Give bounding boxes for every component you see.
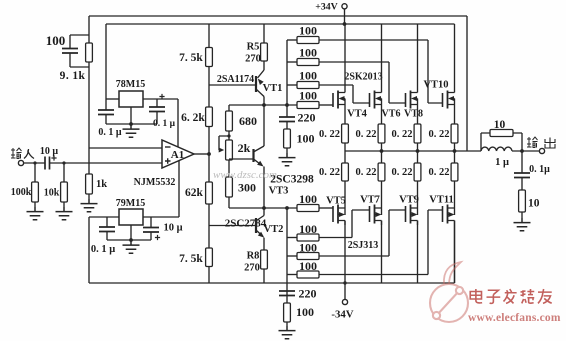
svg-text:0. 22: 0. 22	[429, 167, 450, 178]
svg-text:1k: 1k	[96, 179, 107, 190]
svg-text:100: 100	[299, 259, 317, 273]
wire: bus to 0.22 (lower col 4)	[454, 151, 456, 163]
node: pot wiper tie	[227, 134, 230, 137]
pin: inverting	[165, 146, 171, 148]
resistor 100k	[34, 163, 36, 182]
wire: gate VT4	[319, 104, 333, 106]
svg-text:VT3: VT3	[269, 186, 289, 197]
svg-text:0. 1 μ: 0. 1 μ	[91, 244, 115, 255]
node: VT1 collector junction	[262, 103, 266, 107]
resistor 0.22 (lower col 4)	[451, 163, 458, 181]
wire: gate VT10	[319, 40, 443, 103]
svg-text:10 μ: 10 μ	[40, 146, 59, 157]
transistor VT7 (2SJ313)	[369, 206, 371, 222]
svg-text:VT11: VT11	[429, 195, 454, 206]
wire: zobel gnd	[521, 212, 523, 218]
wire: +34V rail left drop to 78M15 input	[105, 24, 107, 99]
ground (upper zobel)	[279, 153, 296, 166]
node: -34V supply terminal	[344, 283, 346, 299]
wire: 0.22 to source (lower col 1)	[344, 181, 346, 208]
wire: upper row 3 lead	[287, 84, 297, 86]
node: upper zobel junction	[285, 103, 289, 107]
svg-text:VT7: VT7	[360, 195, 380, 206]
svg-text:0. 22: 0. 22	[429, 129, 450, 140]
wire: 0.22 to bus (upper col 2)	[381, 143, 383, 151]
wire: 0.22 to source (lower col 2)	[381, 181, 383, 208]
svg-text:+34V: +34V	[315, 2, 337, 13]
regulator 79M15	[119, 209, 143, 225]
ground (10k)	[56, 207, 73, 220]
node: bus junction x=381.5	[380, 149, 384, 153]
node: 79M15 ground junction	[129, 238, 133, 242]
wire: bias chain column	[228, 105, 230, 208]
wire: source to 0.22 (upper col 4)	[454, 105, 456, 125]
svg-text:0. 22: 0. 22	[392, 129, 413, 140]
svg-text:100: 100	[299, 24, 317, 38]
svg-text:VT5: VT5	[326, 196, 346, 207]
potentiometer 2k	[226, 140, 233, 160]
resistor 0.22 (lower col 2)	[378, 163, 385, 181]
wire: drain VT5	[344, 221, 346, 284]
wire: 78M15 output lead	[143, 98, 178, 100]
svg-text:100: 100	[299, 241, 317, 255]
wire: 78M15 input lead	[106, 98, 119, 100]
wire: upper zobel gnd	[286, 148, 288, 153]
wire: output bus	[345, 150, 481, 152]
wire: -15V to op-amp	[178, 161, 180, 218]
wire: VT1 base	[209, 84, 256, 86]
node: +34V rail junction	[343, 22, 347, 26]
svg-text:680: 680	[239, 114, 257, 128]
svg-text:6. 2k: 6. 2k	[181, 112, 205, 124]
resistor 100 (upper gate row 4)	[297, 102, 319, 109]
wire: 0.22 to source (lower col 3)	[417, 181, 419, 208]
wire: drain VT8	[417, 24, 419, 88]
wire: drain VT10	[454, 24, 456, 88]
svg-text:300: 300	[238, 181, 256, 195]
wire: lower gate bus	[229, 207, 297, 209]
capacitor 100 (feedback)	[70, 35, 89, 67]
svg-text:2SJ313: 2SJ313	[348, 240, 379, 251]
svg-text:220: 220	[299, 287, 317, 301]
svg-text:2k: 2k	[238, 141, 251, 155]
transistor VT1 (2SA1174)	[255, 76, 257, 92]
node: VT3/VT2 junction	[262, 206, 266, 210]
label shuru (input) glyphs	[11, 148, 22, 159]
node: input terminal	[18, 160, 23, 165]
wire: lower zobel gnd	[286, 322, 288, 326]
transistor VT5 (2SJ313)	[332, 206, 334, 222]
svg-text:VT6: VT6	[382, 109, 401, 120]
node: bus junction x=454.5	[453, 149, 457, 153]
svg-text:7. 5k: 7. 5k	[179, 52, 203, 64]
resistor 100 (lower gate row 1)	[297, 205, 319, 212]
svg-text:0. 22: 0. 22	[356, 129, 377, 140]
wire: drain VT11	[454, 221, 456, 284]
svg-text:A1: A1	[171, 149, 184, 161]
svg-text:2SA1174: 2SA1174	[217, 74, 254, 85]
svg-text:270: 270	[244, 263, 260, 274]
transistor VT2 (2SC2784)	[255, 218, 257, 233]
svg-text:VT2: VT2	[264, 224, 284, 235]
wire: lower riser	[286, 208, 288, 291]
wire: gate VT6	[319, 85, 370, 103]
wire: 79M15 ground bus	[107, 239, 151, 241]
ground (lower zobel)	[279, 326, 296, 339]
node: output terminal	[539, 148, 544, 153]
svg-text:10: 10	[528, 198, 540, 210]
node: op-amp output junction	[207, 152, 211, 156]
svg-text:www.dzsc.com: www.dzsc.com	[213, 169, 277, 181]
resistor 100 (lower zobel)	[286, 296, 288, 304]
resistor 10 (zobel)	[519, 190, 526, 212]
watermark elecfans logo+text	[430, 262, 561, 324]
svg-text:7. 5k: 7. 5k	[179, 253, 203, 265]
wire: lower row 4 lead	[287, 274, 297, 276]
svg-text:9. 1k: 9. 1k	[60, 70, 86, 82]
resistor 100 (upper gate row 1)	[297, 37, 319, 44]
svg-text:0. 22: 0. 22	[319, 129, 340, 140]
svg-text:100: 100	[299, 222, 317, 236]
wire: 79M15 gnd lead	[130, 225, 132, 240]
wire: lower row 3 lead	[287, 255, 297, 257]
ground (1k)	[81, 199, 98, 212]
resistor 6.2k	[206, 107, 213, 127]
svg-text:100: 100	[299, 192, 317, 206]
wire: gate VT7	[319, 210, 370, 238]
svg-text:100: 100	[296, 305, 314, 319]
svg-text:www.elecfans.com: www.elecfans.com	[468, 312, 561, 324]
wire: 1k to ground	[88, 194, 90, 199]
svg-text:100: 100	[299, 69, 317, 83]
wire: +15V to op-amp	[177, 99, 179, 147]
resistor 0.22 (lower col 3)	[414, 163, 421, 181]
node: +34V supply terminal	[342, 4, 347, 9]
wire: 0.22 to bus (upper col 3)	[417, 143, 419, 151]
resistor 0.22 (upper col 4)	[451, 124, 458, 143]
wire: upper gate bus	[229, 104, 297, 106]
wire: gate VT11	[319, 210, 443, 275]
node: bus junction feedback	[465, 150, 467, 152]
capacitor 0.1u (78M15 input)	[105, 99, 107, 124]
wire: bus to 0.22 (lower col 3)	[417, 151, 419, 163]
wire: drain VT6	[381, 24, 383, 88]
wire: VT2 base	[209, 225, 256, 227]
transistor VT4 (2SK2013)	[332, 93, 334, 107]
node: 100k tap	[33, 161, 36, 164]
ground (79M15)	[123, 241, 140, 254]
wire: VT1 collector to gate bus	[263, 97, 265, 147]
resistor 100 (lower gate row 4)	[297, 271, 319, 278]
resistor 10k	[63, 163, 65, 182]
resistor 1k	[86, 174, 93, 194]
resistor 0.22 (lower col 1)	[342, 163, 349, 181]
wire: -34V rail	[89, 225, 455, 283]
wire: upper row 2 lead	[287, 61, 297, 63]
svg-text:220: 220	[298, 111, 316, 125]
wire: op-amp output	[194, 153, 209, 155]
transistor VT11 (2SJ313)	[442, 206, 444, 222]
wire: feedback column (left)	[88, 16, 90, 174]
transistor VT10 (2SK2013)	[442, 93, 444, 107]
resistor 7.5k (upper)	[206, 48, 213, 67]
resistor R5 270	[263, 24, 265, 70]
wire: source to 0.22 (upper col 1)	[344, 105, 346, 125]
wire: 0.22 to bus (upper col 1)	[344, 143, 346, 151]
capacitor 0.1u (79M15 input)	[106, 217, 108, 240]
regulator 78M15	[119, 91, 143, 107]
node: output junction	[520, 149, 524, 153]
resistor 680	[226, 111, 233, 131]
label input (shuru)	[0, 0, 1, 1]
svg-text:100k: 100k	[11, 187, 32, 198]
wire: gate VT9	[319, 210, 406, 256]
wire: upper riser	[286, 40, 288, 105]
wire: bus to 0.22 (lower col 1)	[344, 151, 346, 163]
node: 78M15 ground junction	[129, 122, 133, 126]
transistor VT6 (2SK2013)	[369, 93, 371, 107]
svg-text:VT8: VT8	[404, 109, 423, 120]
svg-text:0. 1 μ: 0. 1 μ	[98, 127, 122, 138]
node: 10k tap	[62, 161, 65, 164]
wire: feedback rail right drop to output bus	[466, 16, 468, 151]
resistor 7.5k (lower)	[206, 248, 213, 267]
svg-text:0. 1 μ: 0. 1 μ	[153, 119, 176, 129]
svg-text:0. 1μ: 0. 1μ	[529, 164, 550, 175]
wire: 78M15 ground bus	[106, 123, 157, 125]
wire: upper row 1 lead	[287, 39, 297, 41]
wire: gate VT8	[319, 62, 406, 103]
svg-text:62k: 62k	[185, 187, 204, 199]
resistor 100 (lower gate row 3)	[297, 253, 319, 260]
capacitor 10u (79M15 output)	[150, 217, 152, 240]
capacitor 0.1u (zobel)	[521, 151, 523, 190]
resistor 0.22 (upper col 2)	[378, 124, 385, 143]
svg-text:100: 100	[299, 46, 317, 60]
transistor VT8 (2SK2013)	[405, 93, 407, 107]
svg-text:100: 100	[297, 132, 315, 146]
svg-text:78M15: 78M15	[116, 79, 145, 90]
svg-text:10k: 10k	[44, 188, 60, 199]
wire: bias column	[208, 24, 210, 283]
svg-text:R5: R5	[247, 42, 260, 53]
capacitor 220 (upper)	[286, 105, 288, 129]
wire: coupling cap to non-inverting input	[50, 162, 163, 164]
inductor 1u	[481, 133, 522, 151]
resistor 0.22 (upper col 3)	[414, 124, 421, 143]
wire: 0.22 to bus (upper col 4)	[454, 143, 456, 151]
watermark dianzifashaoyou glyphs	[470, 289, 482, 303]
wire: input to coupling cap	[24, 162, 45, 164]
op-amp A1	[162, 140, 194, 168]
svg-text:100: 100	[46, 33, 66, 48]
wire: bus to 0.22 (lower col 2)	[381, 151, 383, 163]
svg-text:-34V: -34V	[331, 309, 353, 321]
wire: 79M15 output lead	[143, 216, 179, 218]
resistor 100 (upper gate row 2)	[297, 59, 319, 66]
wire: drain VT4	[344, 24, 346, 88]
wire: to output terminal	[522, 150, 539, 152]
wire: VT3 base	[229, 158, 254, 160]
svg-text:0. 22: 0. 22	[356, 167, 377, 178]
resistor 300	[226, 177, 233, 197]
wire: +34V rail	[106, 23, 455, 25]
wire: 78M15 gnd lead	[130, 107, 132, 124]
resistor 0.22 (upper col 1)	[342, 124, 349, 143]
node: feedback rail from output (top)	[89, 15, 467, 17]
ground (78M15)	[123, 125, 140, 138]
wire: gate VT5	[319, 207, 333, 209]
transistor VT3 (2SC3298)	[252, 149, 254, 162]
svg-text:NJM5532: NJM5532	[134, 177, 176, 188]
svg-text:2SK2013: 2SK2013	[344, 72, 382, 83]
svg-text:2SC2784: 2SC2784	[225, 218, 267, 230]
svg-text:VT10: VT10	[423, 80, 448, 91]
svg-text:VT9: VT9	[399, 195, 419, 206]
svg-text:0. 22: 0. 22	[392, 167, 413, 178]
resistor 62k	[206, 182, 213, 204]
capacitor 10u (input coupling)	[45, 157, 50, 170]
resistor R8 270	[263, 238, 265, 283]
wire: 100k to ground	[34, 202, 36, 207]
resistor 100 (upper zobel)	[284, 129, 291, 148]
svg-text:100: 100	[299, 89, 317, 103]
wire: drain VT7	[381, 221, 383, 284]
wire: source to 0.22 (upper col 2)	[381, 105, 383, 125]
wire: 79M15 input lead	[89, 217, 119, 283]
wire: lower row 2 lead	[287, 237, 297, 239]
wire: 10k to ground	[63, 202, 65, 207]
capacitor 0.1u (78M15 output)	[156, 99, 158, 124]
node: lower riser junction	[285, 206, 289, 210]
svg-text:270: 270	[245, 54, 261, 65]
svg-text:79M15: 79M15	[116, 198, 145, 209]
svg-text:R8: R8	[247, 251, 260, 262]
wire: inverting input	[89, 147, 162, 149]
svg-text:0. 22: 0. 22	[319, 167, 340, 178]
capacitor 220 (lower)	[286, 291, 288, 296]
resistor 10 (output damping)	[490, 130, 513, 137]
svg-text:10 μ: 10 μ	[163, 223, 182, 234]
resistor 100 (lower gate row 2)	[297, 234, 319, 241]
wire: 0.22 to source (lower col 4)	[454, 181, 456, 208]
node: -34V terminal junction	[343, 281, 346, 284]
svg-text:VT1: VT1	[263, 83, 283, 94]
svg-text:VT4: VT4	[347, 109, 368, 120]
transistor VT9 (2SJ313)	[405, 206, 407, 222]
resistor 9.1k	[86, 43, 93, 62]
wire: source to 0.22 (upper col 3)	[417, 105, 419, 125]
wire: VT3 emitter to lower bus / VT2 collector	[257, 167, 265, 221]
ground (output zobel)	[514, 218, 531, 231]
svg-text:1 μ: 1 μ	[495, 157, 509, 168]
svg-text:10: 10	[494, 119, 506, 131]
node: bus junction x=417.5	[416, 149, 420, 153]
ground (100k)	[27, 207, 44, 220]
resistor 100 (upper gate row 3)	[297, 82, 319, 89]
label output (shuchu)	[0, 0, 1, 1]
wire: drain VT9	[417, 221, 419, 284]
label shuchu (output) glyphs	[527, 137, 538, 148]
pin: non-inverting	[165, 158, 171, 164]
